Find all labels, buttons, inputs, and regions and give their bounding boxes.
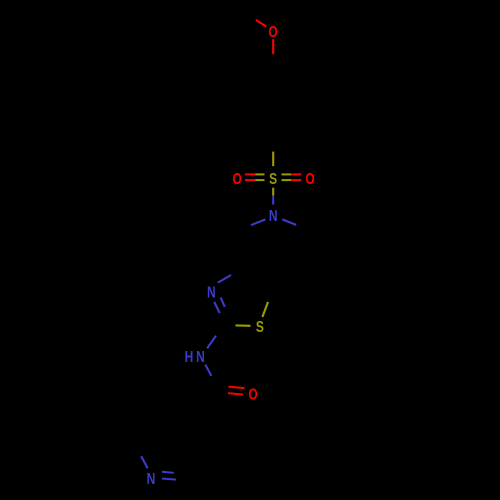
svg-text:S: S xyxy=(269,169,277,187)
svg-text:S: S xyxy=(256,317,264,335)
svg-text:H: H xyxy=(185,347,194,365)
svg-text:O: O xyxy=(233,169,242,187)
svg-text:O: O xyxy=(248,385,257,403)
svg-text:N: N xyxy=(207,283,216,301)
svg-text:O: O xyxy=(268,22,277,40)
svg-text:O: O xyxy=(305,169,314,187)
svg-text:N: N xyxy=(269,206,278,224)
svg-text:N: N xyxy=(147,469,156,487)
svg-text:N: N xyxy=(196,347,205,365)
